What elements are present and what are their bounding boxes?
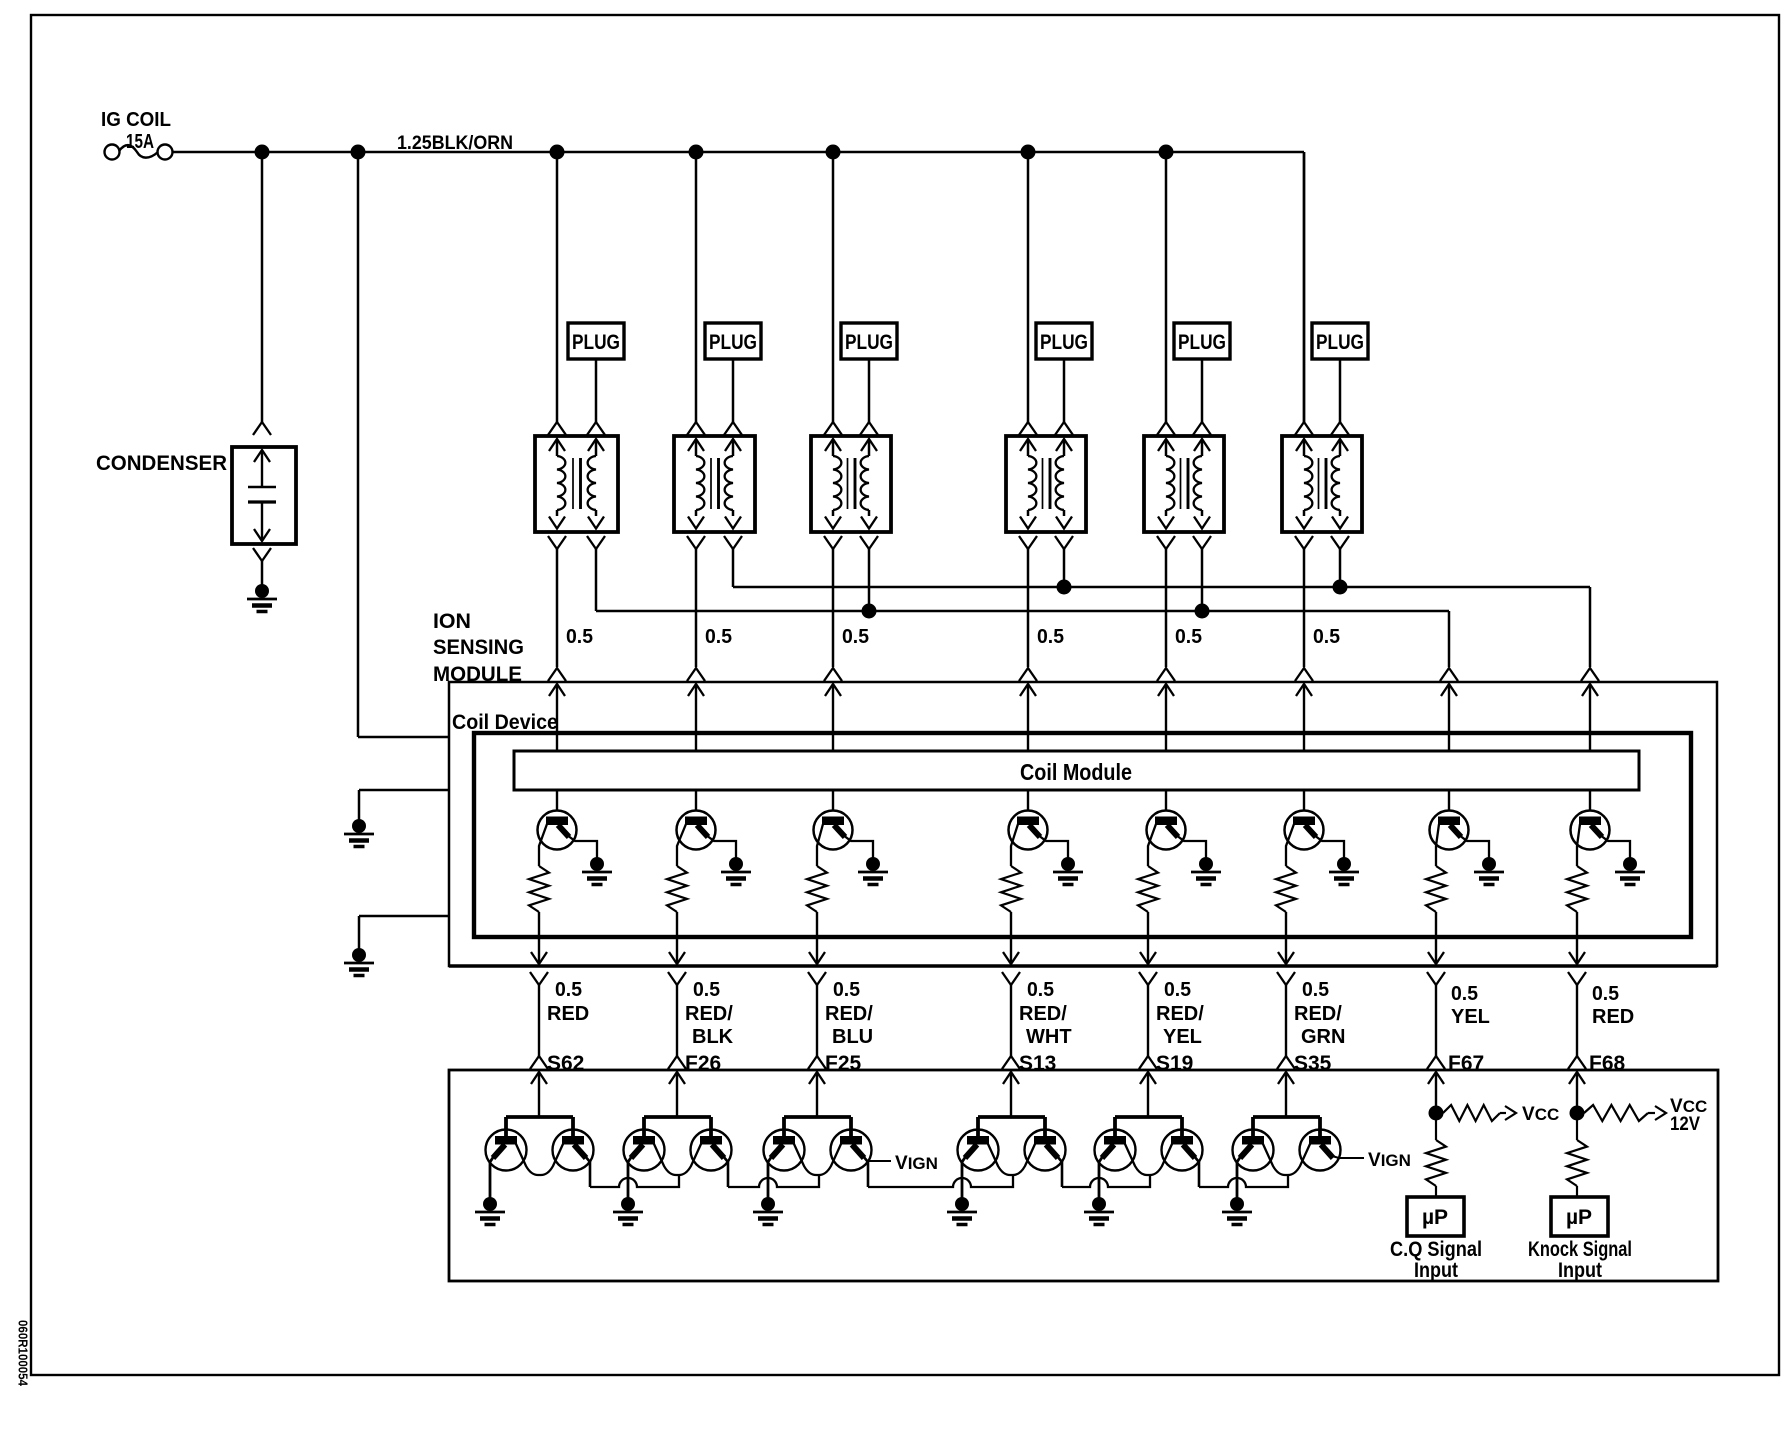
wire plug 1 lead	[595, 359, 598, 422]
connector coil 6 top	[1295, 422, 1313, 435]
svg-text:0.5: 0.5	[1027, 979, 1054, 1001]
wire coil 1 to module	[556, 549, 559, 667]
wire plug 5 lead	[1201, 359, 1204, 422]
svg-text:CONDENSER: CONDENSER	[96, 452, 227, 475]
wire link pair 3 to pair 4	[868, 1176, 1013, 1187]
svg-text:RED/: RED/	[825, 1003, 873, 1025]
svg-text:YEL: YEL	[1163, 1026, 1202, 1048]
resistor R8	[1567, 866, 1587, 912]
transistor pair 4 base rail	[978, 1115, 1045, 1119]
wire emitter pair 1 output	[585, 1156, 590, 1187]
ground (transistor Q6)	[1337, 857, 1351, 871]
junction dot coil 5 return	[1195, 604, 1210, 619]
ground (pair 4)	[955, 1197, 969, 1211]
resistor R17 (to VCC)	[1436, 1112, 1443, 1114]
connector ECU input S19	[1139, 1056, 1157, 1069]
svg-text:F26: F26	[685, 1052, 721, 1075]
wire coil 1 primary from bus	[556, 152, 559, 422]
connector coil 1 top	[548, 422, 566, 435]
svg-text:PLUG: PLUG	[1040, 331, 1088, 354]
connector module output 6	[1278, 952, 1294, 964]
ground (pair 6)	[1230, 1197, 1244, 1211]
wire coil 4 secondary return	[1063, 549, 1066, 587]
resistor R20 (pull down)	[1576, 1113, 1578, 1140]
wire secondary return bus (coils 2,4,6) to module input 8	[733, 586, 1590, 589]
transistor Q5	[1147, 811, 1186, 850]
wire plug 3 lead	[868, 359, 871, 422]
svg-text:0.5: 0.5	[705, 626, 732, 648]
wire module output 4	[1010, 912, 1012, 964]
transistor Q12	[553, 1130, 594, 1171]
svg-text:0.5: 0.5	[1037, 626, 1064, 648]
wire module output 6	[1285, 912, 1287, 964]
transistor Q19	[1095, 1130, 1136, 1171]
svg-text:RED: RED	[1592, 1006, 1634, 1028]
svg-text:WHT: WHT	[1026, 1026, 1072, 1048]
wire collector coupling pair 6	[1263, 1144, 1310, 1175]
wire link pair 5 to pair 6	[1199, 1176, 1288, 1187]
resistor R19 (to VCC 12V)	[1577, 1112, 1584, 1114]
wire plug 6 lead	[1339, 359, 1342, 422]
svg-text:S19: S19	[1156, 1052, 1193, 1075]
ignition coil T5 (transformer)	[1144, 436, 1224, 532]
wire collector Q5 to resistor	[1148, 824, 1156, 866]
wire module output 1	[538, 912, 540, 964]
svg-text:0.5: 0.5	[1175, 626, 1202, 648]
svg-text:Input: Input	[1558, 1259, 1602, 1282]
ground (pair 1)	[483, 1197, 497, 1211]
transistor Q14	[691, 1130, 732, 1171]
transistor pair 1 base rail	[506, 1115, 573, 1119]
connector below condenser	[253, 548, 271, 561]
connector module input 6	[1295, 668, 1313, 681]
core of coil T6	[1318, 458, 1320, 509]
svg-text:BLK: BLK	[692, 1026, 734, 1048]
connector module output 4	[1003, 952, 1019, 964]
node VIGN (second)	[1332, 1156, 1364, 1158]
svg-text:0.5: 0.5	[693, 979, 720, 1001]
connector coil 4 bottom	[1019, 536, 1037, 549]
wire emitter pair 5 to ground	[1099, 1156, 1103, 1200]
transistor Q2	[677, 811, 716, 850]
transistor Q16	[831, 1130, 872, 1171]
connector coil 3 bottom	[824, 536, 842, 549]
ignition coil T6 (transformer)	[1282, 436, 1362, 532]
resistor R1	[529, 866, 549, 912]
junction bus dot 2 at x=358	[351, 145, 366, 160]
connector module output 7	[1428, 952, 1444, 964]
wire coil module to transistor Q6	[1303, 790, 1305, 811]
wire collector Q4 to resistor	[1011, 824, 1018, 866]
plug P1	[568, 323, 624, 359]
junction bus dot 4 at x=696	[689, 145, 704, 160]
transistor pair 3 base rail	[784, 1115, 851, 1119]
connector coil 2 bottom	[687, 536, 705, 549]
resistor R5	[1138, 866, 1158, 912]
connector module input 2	[687, 668, 705, 681]
wire link pair 1 to pair 2	[590, 1176, 679, 1187]
wire emitter pair 5 output	[1194, 1156, 1199, 1187]
svg-text:µP: µP	[1422, 1206, 1448, 1229]
ground (condenser)	[255, 584, 269, 598]
ground (transistor Q3)	[866, 857, 880, 871]
wire emitter pair 6 to ground	[1237, 1156, 1241, 1200]
junction dot coil 6 return	[1333, 580, 1348, 595]
plug P4	[1036, 323, 1092, 359]
wire coil 6 primary from bus	[1303, 152, 1306, 422]
connector to condenser	[253, 422, 271, 435]
node junction F67 internal	[1429, 1106, 1444, 1121]
resistor R7	[1426, 866, 1446, 912]
svg-text:VIGN: VIGN	[1368, 1150, 1411, 1171]
svg-text:Coil Module: Coil Module	[1020, 759, 1132, 785]
node junction F68 internal	[1570, 1106, 1585, 1121]
svg-text:S62: S62	[547, 1052, 584, 1075]
svg-text:IG COIL: IG COIL	[101, 109, 171, 131]
connector ECU input S35	[1277, 1056, 1295, 1069]
wire coil 6 secondary return	[1339, 549, 1342, 587]
wire emitter pair 3 output	[863, 1156, 868, 1187]
svg-text:15A: 15A	[126, 131, 154, 153]
transistor pair 2 base rail	[644, 1115, 711, 1119]
svg-text:0.5: 0.5	[1451, 983, 1478, 1005]
svg-text:0.5: 0.5	[566, 626, 593, 648]
ground (transistor Q2)	[729, 857, 743, 871]
svg-text:RED: RED	[547, 1003, 589, 1025]
wire coil module to transistor Q4	[1027, 790, 1029, 811]
ground (module stub B)	[352, 948, 366, 962]
resistor R6	[1276, 866, 1296, 912]
wire link pair 4 to pair 5	[1062, 1176, 1150, 1187]
svg-text:RED/: RED/	[1019, 1003, 1067, 1025]
junction dot coil 4 return	[1057, 580, 1072, 595]
connector ECU input F67	[1427, 1056, 1445, 1069]
wire emitter pair 1 to ground	[490, 1156, 494, 1200]
ECU box	[449, 1070, 1718, 1281]
wire coil module to transistor Q7	[1448, 790, 1450, 811]
core of coil T1	[572, 458, 574, 509]
svg-text:0.5: 0.5	[1592, 983, 1619, 1005]
svg-text:060R100054: 060R100054	[16, 1320, 30, 1386]
connector ECU input F26	[668, 1056, 686, 1069]
connector coil 6 bottom	[1295, 536, 1313, 549]
wire module output 8	[1576, 912, 1578, 964]
connector module input 3	[824, 668, 842, 681]
connector module input 5	[1157, 668, 1175, 681]
svg-text:0.5: 0.5	[842, 626, 869, 648]
svg-text:µP: µP	[1566, 1206, 1592, 1229]
junction bus dot 5 at x=833	[826, 145, 841, 160]
wire coil 4 to module	[1027, 549, 1030, 667]
ignition coil T3 (transformer)	[811, 436, 891, 532]
ignition coil T1 (transformer)	[535, 436, 618, 532]
transistor Q15	[764, 1130, 805, 1171]
wire emitter pair 4 output	[1057, 1156, 1062, 1187]
wire collector Q2 to resistor	[677, 824, 686, 866]
svg-text:GRN: GRN	[1301, 1026, 1345, 1048]
wire plug 2 lead	[732, 359, 735, 422]
ignition coil T2 (transformer)	[674, 436, 755, 532]
svg-text:PLUG: PLUG	[1178, 331, 1226, 354]
junction bus dot 7 at x=1166	[1159, 145, 1174, 160]
connector module input 8	[1581, 668, 1599, 681]
ground (pair 5)	[1092, 1197, 1106, 1211]
transistor Q1	[538, 811, 577, 850]
svg-text:0.5: 0.5	[1313, 626, 1340, 648]
core of coil T2	[710, 458, 712, 509]
wire emitter pair 2 to ground	[628, 1156, 632, 1200]
wire collector coupling pair 4	[988, 1144, 1035, 1175]
wire coil 3 to module	[832, 549, 835, 667]
svg-text:SENSING: SENSING	[433, 636, 524, 659]
wire collector Q7 to resistor	[1436, 824, 1439, 866]
svg-text:PLUG: PLUG	[709, 331, 757, 354]
wire coil 1 secondary return	[595, 549, 598, 611]
svg-text:0.5: 0.5	[1302, 979, 1329, 1001]
resistor R18 (pull down)	[1435, 1113, 1437, 1140]
connector ECU input S13	[1002, 1056, 1020, 1069]
plug P3	[841, 323, 897, 359]
wire collector Q8 to resistor	[1577, 824, 1580, 866]
wire coil 2 primary from bus	[695, 152, 698, 422]
plug P5	[1174, 323, 1230, 359]
wire emitter pair 2 output	[723, 1156, 728, 1187]
transistor Q18	[1025, 1130, 1066, 1171]
wire emitter pair 3 to ground	[768, 1156, 772, 1200]
transistor Q13	[624, 1130, 665, 1171]
connector ECU input S62	[530, 1056, 548, 1069]
wire secondary return bus (coils 1,3,5) to module input 7	[596, 610, 1449, 613]
arrow to VCC	[1505, 1106, 1516, 1120]
wire module left ground stub B	[359, 915, 449, 918]
core of coil T4	[1042, 458, 1044, 509]
svg-text:0.5: 0.5	[1164, 979, 1191, 1001]
wire coil 6 to module	[1303, 549, 1306, 667]
svg-text:F68: F68	[1589, 1052, 1626, 1075]
resistor R4	[1001, 866, 1021, 912]
svg-text:Input: Input	[1414, 1259, 1458, 1282]
connector ECU input F25	[808, 1056, 826, 1069]
transistor Q6	[1285, 811, 1324, 850]
svg-text:0.5: 0.5	[555, 979, 582, 1001]
svg-text:PLUG: PLUG	[1316, 331, 1364, 354]
connector coil 3 top	[824, 422, 842, 435]
resistor R2	[667, 866, 687, 912]
microprocessor U2	[1407, 1197, 1464, 1236]
ground (transistor Q5)	[1199, 857, 1213, 871]
core of coil T5	[1180, 458, 1182, 509]
wire coil module to transistor Q8	[1589, 790, 1591, 811]
transistor Q21	[1233, 1130, 1274, 1171]
connector module input 1	[548, 668, 566, 681]
connector coil 5 bottom	[1157, 536, 1175, 549]
wire coil module to transistor Q5	[1165, 790, 1167, 811]
svg-text:Coil Device: Coil Device	[452, 711, 558, 734]
connector coil 4 top	[1019, 422, 1037, 435]
wire coil 3 secondary return	[868, 549, 871, 611]
connector module input 4	[1019, 668, 1037, 681]
svg-text:BLU: BLU	[832, 1026, 873, 1048]
transistor Q22	[1300, 1130, 1341, 1171]
wire coil 5 to module	[1165, 549, 1168, 667]
microprocessor U3	[1551, 1197, 1608, 1236]
wire coil module to transistor Q3	[832, 790, 834, 811]
svg-text:Knock Signal: Knock Signal	[1528, 1238, 1632, 1261]
svg-text:12V: 12V	[1670, 1114, 1700, 1135]
wire coil 2 secondary return	[732, 549, 735, 587]
wire plug 4 lead	[1063, 359, 1066, 422]
wire module output 5	[1147, 912, 1149, 964]
core of coil T3	[847, 458, 849, 509]
svg-text:F67: F67	[1448, 1052, 1484, 1075]
transistor Q17	[958, 1130, 999, 1171]
wire module output 2	[676, 912, 678, 964]
junction dot coil 3 return	[862, 604, 877, 619]
connector module output 1	[531, 952, 547, 964]
junction bus dot 6 at x=1028	[1021, 145, 1036, 160]
wire bus end drop to coil 6	[1303, 152, 1306, 422]
ground (pair 3)	[761, 1197, 775, 1211]
connector module output 8	[1569, 952, 1585, 964]
wire coil 3 primary from bus	[832, 152, 835, 422]
wire collector coupling pair 5	[1125, 1144, 1172, 1175]
coil module box	[514, 751, 1639, 790]
ground (transistor Q7)	[1482, 857, 1496, 871]
svg-text:ION: ION	[433, 610, 471, 633]
wire coil 5 primary from bus	[1165, 152, 1168, 422]
svg-text:0.5: 0.5	[833, 979, 860, 1001]
wire collector Q3 to resistor	[817, 824, 823, 866]
ground (transistor Q4)	[1061, 857, 1075, 871]
ion sensing module box bottom edge (heavy)	[449, 964, 1717, 968]
ground (module stub A)	[352, 819, 366, 833]
transistor pair 5 base rail	[1115, 1115, 1182, 1119]
connector module output 2	[669, 952, 685, 964]
wire condenser to ground	[261, 561, 264, 586]
transistor Q11	[486, 1130, 527, 1171]
wire emitter pair 4 to ground	[962, 1156, 966, 1200]
transistor Q7	[1430, 811, 1469, 850]
connector coil 2 top	[687, 422, 705, 435]
ion sensing module box U1	[449, 682, 1717, 966]
ground (transistor Q1)	[590, 857, 604, 871]
resistor R3	[807, 866, 827, 912]
ground (pair 2)	[621, 1197, 635, 1211]
wire coil module to transistor Q2	[695, 790, 697, 811]
transistor Q8	[1571, 811, 1610, 850]
svg-text:RED/: RED/	[1294, 1003, 1342, 1025]
svg-text:C.Q Signal: C.Q Signal	[1390, 1238, 1482, 1261]
svg-text:VIGN: VIGN	[895, 1153, 938, 1174]
svg-text:PLUG: PLUG	[845, 331, 893, 354]
svg-text:RED/: RED/	[685, 1003, 733, 1025]
junction bus dot 1 at x=262	[255, 145, 270, 160]
connector coil 1 bottom	[548, 536, 566, 549]
wire coil module to transistor Q1	[556, 790, 558, 811]
svg-text:S35: S35	[1294, 1052, 1332, 1075]
wire coil 4 primary from bus	[1027, 152, 1030, 422]
wire collector coupling pair 1	[516, 1144, 563, 1175]
wire coil 5 secondary return	[1201, 549, 1204, 611]
wire bus to ion sensing module (left feed)	[357, 152, 360, 737]
wire collector Q6 to resistor	[1286, 824, 1294, 866]
connector module output 3	[809, 952, 825, 964]
connector module output 5	[1140, 952, 1156, 964]
connector coil 5 top	[1157, 422, 1175, 435]
transistor Q4	[1009, 811, 1048, 850]
node VIGN (first)	[868, 1160, 891, 1162]
wire collector coupling pair 2	[654, 1144, 701, 1175]
wire module output 3	[816, 912, 818, 964]
connector module input 7	[1440, 668, 1458, 681]
svg-text:RED/: RED/	[1156, 1003, 1204, 1025]
wire link pair 2 to pair 3	[728, 1176, 819, 1187]
wire module output 7	[1435, 912, 1437, 964]
wire collector Q1 to resistor	[539, 824, 547, 866]
svg-text:S13: S13	[1019, 1052, 1056, 1075]
transistor Q3	[814, 811, 853, 850]
arrow to VCC 12V	[1655, 1106, 1666, 1120]
transistor pair 6 base rail	[1253, 1115, 1320, 1119]
ground (transistor Q8)	[1623, 857, 1637, 871]
plug P2	[705, 323, 761, 359]
svg-text:YEL: YEL	[1451, 1006, 1490, 1028]
junction bus dot 3 at x=557	[550, 145, 565, 160]
wire collector coupling pair 3	[794, 1144, 841, 1175]
wire module left ground stub A	[359, 789, 449, 792]
wire condenser branch	[261, 152, 264, 422]
svg-text:VCC: VCC	[1522, 1104, 1559, 1125]
svg-text:F25: F25	[825, 1052, 862, 1075]
ignition coil T4 (transformer)	[1006, 436, 1086, 532]
wire coil 2 to module	[695, 549, 698, 667]
plug P6	[1312, 323, 1368, 359]
svg-text:PLUG: PLUG	[572, 331, 620, 354]
transistor Q20	[1162, 1130, 1203, 1171]
connector ECU input F68	[1568, 1056, 1586, 1069]
